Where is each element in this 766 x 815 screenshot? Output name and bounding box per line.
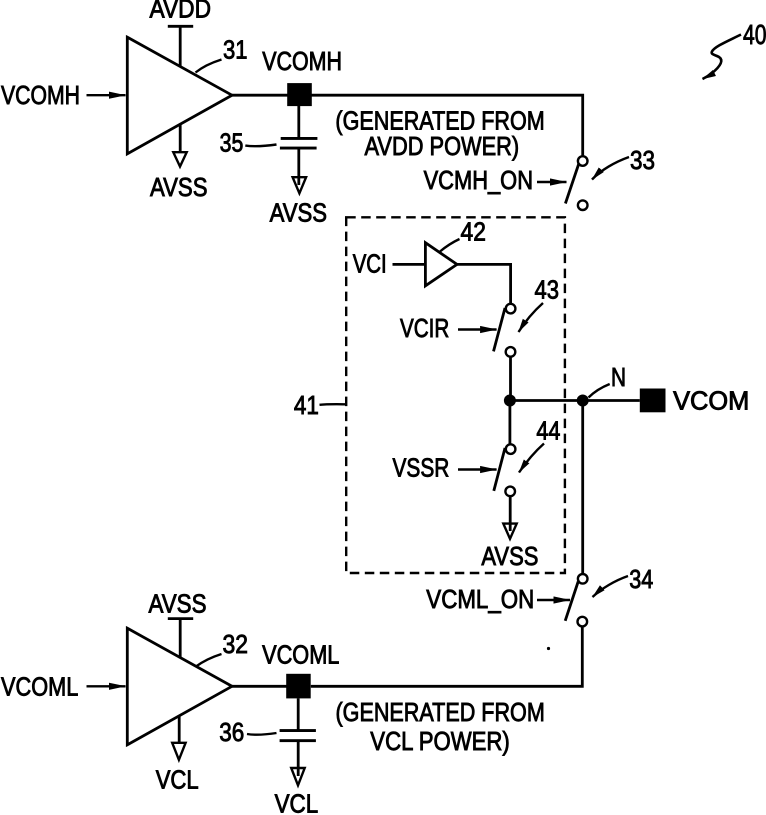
svg-text:42: 42	[461, 216, 486, 246]
VSSR control arrow	[458, 468, 497, 470]
svg-text:VCOMH: VCOMH	[262, 46, 342, 76]
leader arrow for 33	[592, 157, 629, 180]
svg-text:36: 36	[219, 717, 244, 747]
svg-text:32: 32	[223, 629, 249, 659]
op-amp U32 (VCOML amplifier)	[127, 628, 232, 745]
capacitor C36 bottom stem	[297, 742, 300, 776]
switch SW44 top contact	[506, 444, 516, 454]
svg-text:AVSS: AVSS	[149, 588, 207, 618]
leader line for N	[589, 384, 610, 398]
capacitor C36 top stem	[297, 698, 300, 730]
VCML_ON control arrow	[537, 599, 570, 601]
wire node N down to SW34	[581, 401, 584, 574]
VCL arrow (open) below C36	[291, 768, 305, 785]
svg-text:(GENERATED FROM: (GENERATED FROM	[336, 697, 545, 727]
node wire to VCOM pad	[510, 399, 640, 402]
capacitor C35 bottom stem	[297, 150, 300, 186]
switch SW44 bottom contact	[505, 487, 515, 497]
squiggle leader arrow for 40	[703, 35, 742, 80]
wire SW43 to node	[509, 357, 512, 401]
svg-text:43: 43	[535, 274, 560, 304]
switch SW43 blade	[494, 308, 506, 351]
wire SW44 to AVSS arrow	[509, 496, 512, 531]
input wire VCOMH with arrowhead	[87, 94, 126, 96]
VCL supply stem below U32	[178, 715, 181, 743]
switch SW33 bottom contact	[578, 200, 588, 210]
leader line for 35	[245, 145, 276, 147]
buffer U42 (VCI buffer)	[425, 243, 457, 286]
svg-text:VCMH_ON: VCMH_ON	[424, 165, 533, 195]
capacitor C35 plates	[281, 137, 318, 140]
leader line for 41	[320, 403, 346, 406]
svg-text:VCML_ON: VCML_ON	[426, 584, 534, 614]
leader arrow for 44	[519, 444, 544, 473]
switch SW43 top contact	[506, 304, 516, 314]
svg-text:VCL POWER): VCL POWER)	[370, 726, 510, 756]
svg-text:33: 33	[630, 145, 655, 175]
svg-text:VCOM: VCOM	[673, 386, 749, 416]
VCMH_ON control arrow	[537, 181, 567, 183]
svg-text:VCOMH: VCOMH	[1, 80, 80, 110]
stray dot artifact	[547, 647, 550, 650]
svg-text:VCIR: VCIR	[400, 313, 449, 343]
wire node to SW44	[508, 401, 511, 444]
pad VCOML (black square)	[286, 674, 311, 699]
AVSS supply tap of U32	[168, 619, 193, 658]
AVDD supply tap of U31	[168, 26, 193, 66]
AVSS arrow (open) inside block	[503, 524, 516, 539]
AVSS supply stem of U31	[179, 125, 182, 154]
AVSS arrow (open) below C35	[293, 177, 307, 193]
svg-text:AVDD: AVDD	[150, 0, 212, 24]
leader arrow for 43	[519, 303, 544, 332]
svg-text:VSSR: VSSR	[393, 452, 450, 482]
AVSS arrow (open) below U31	[173, 152, 186, 166]
dashed block 41	[346, 217, 565, 573]
svg-text:AVSS: AVSS	[150, 172, 208, 202]
switch SW43 bottom contact	[506, 347, 516, 357]
wire U32 output to VCOML pad	[232, 685, 287, 688]
switch SW34 bottom contact	[578, 617, 588, 627]
wire: U31 output through VCOMH pad to top-right corner, down to switch 33	[232, 95, 583, 155]
switch SW34 blade	[565, 582, 578, 621]
svg-text:AVSS: AVSS	[481, 541, 538, 571]
switch SW33 top contact	[578, 156, 588, 166]
node junction dot (left)	[504, 395, 516, 407]
node junction dot N (right)	[577, 395, 589, 407]
capacitor C35 top stem	[297, 106, 300, 139]
switch SW33 blade	[565, 164, 578, 204]
pad VCOMH (black square)	[287, 83, 312, 106]
input wire VCOML with arrowhead	[87, 685, 126, 687]
wire SW34 down and left to VCOML pad	[311, 626, 583, 686]
svg-text:40: 40	[743, 19, 766, 50]
svg-text:41: 41	[294, 390, 319, 420]
leader line for 42	[440, 239, 460, 252]
svg-text:VCOML: VCOML	[1, 671, 78, 701]
leader line for 36	[247, 733, 277, 735]
svg-text:VCI: VCI	[353, 249, 387, 279]
wire U42 output to SW43	[457, 264, 511, 303]
svg-text:35: 35	[220, 127, 244, 157]
VCIR control arrow	[458, 328, 497, 330]
svg-text:N: N	[611, 362, 626, 392]
svg-text:AVSS: AVSS	[270, 198, 327, 228]
capacitor C36 plates	[280, 729, 316, 732]
svg-text:VCL: VCL	[156, 765, 199, 795]
switch SW44 blade	[494, 448, 505, 491]
svg-text:31: 31	[223, 35, 248, 65]
pad VCOM (black square)	[640, 389, 666, 413]
wire VCI to U42	[393, 263, 426, 266]
VCL arrow (open) below U32	[172, 743, 185, 760]
leader arrow for 34	[593, 576, 629, 597]
svg-text:VCOML: VCOML	[262, 640, 339, 670]
svg-text:44: 44	[536, 415, 560, 445]
svg-text:34: 34	[629, 564, 653, 594]
switch SW34 top contact	[578, 574, 588, 584]
leader line for 32	[196, 654, 222, 667]
leader line for 31	[196, 60, 222, 73]
op-amp U31 (VCOMH amplifier)	[127, 37, 232, 154]
svg-text:VCL: VCL	[275, 788, 319, 815]
svg-text:AVDD POWER): AVDD POWER)	[365, 131, 520, 161]
